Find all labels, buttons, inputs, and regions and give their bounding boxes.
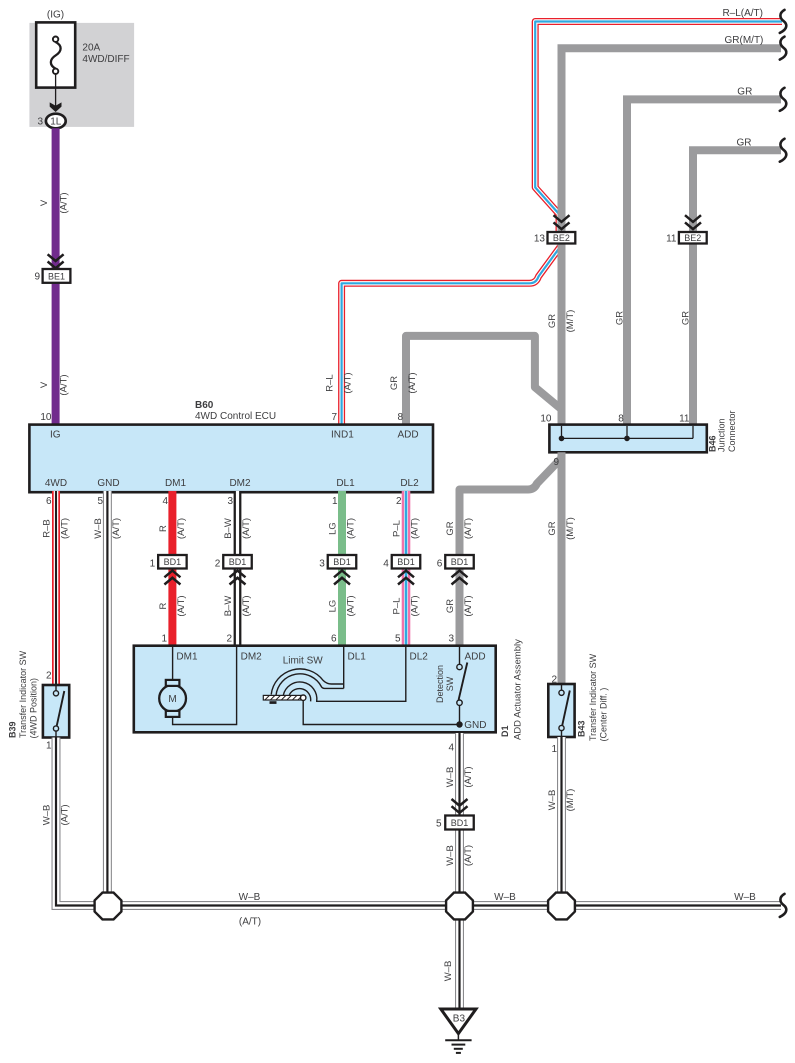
svg-text:DL1: DL1 <box>336 478 355 489</box>
wire W-B from ECU pin 5 to ground bus <box>103 491 112 906</box>
connector BD1 pin 3 <box>319 555 356 570</box>
junction node octagon right <box>548 893 575 920</box>
svg-text:20A: 20A <box>82 43 100 54</box>
chevron arrow into BE1 <box>48 254 64 268</box>
chevron arrow BD1 pin 2 <box>230 571 246 585</box>
svg-text:(A/T): (A/T) <box>463 518 474 539</box>
svg-text:V: V <box>39 199 50 206</box>
svg-text:11: 11 <box>679 414 690 425</box>
wire P-L from ECU pin 2 to actuator DL2 <box>402 491 411 646</box>
switch B39 Transfer Indicator SW (4WD Position) <box>43 685 69 738</box>
svg-text:4: 4 <box>162 496 168 507</box>
svg-text:(A/T): (A/T) <box>345 595 356 616</box>
svg-text:P–L: P–L <box>391 598 402 615</box>
wire GR(A/T) branch from pin 9 to BD1 pin 6 and actuator ADD <box>460 458 562 646</box>
label W-B (M/T) at B43 wire <box>547 789 576 812</box>
svg-text:6: 6 <box>46 496 52 507</box>
label B46 Junction Connector <box>708 410 738 452</box>
wire W-B(M/T) from B43 pin 1 to ground bus <box>557 737 566 906</box>
chevron arrow into BD1 pin 5 <box>452 799 468 813</box>
limit switch wiper (hatched bar) <box>263 695 459 725</box>
svg-text:B–W: B–W <box>223 596 234 617</box>
svg-text:Junction: Junction <box>717 418 727 452</box>
svg-text:Transfer Indicator SW: Transfer Indicator SW <box>588 653 598 741</box>
svg-text:(A/T): (A/T) <box>345 518 356 539</box>
connector BD1 pin 6 <box>437 555 474 570</box>
fuse 20A 4WD/DIFF <box>36 22 75 87</box>
actuator internal pin labels <box>176 652 485 667</box>
svg-text:1: 1 <box>150 559 156 570</box>
break symbol GR wire upper <box>780 88 787 111</box>
svg-text:B43: B43 <box>577 720 587 737</box>
svg-text:ADD: ADD <box>465 652 486 663</box>
wire B-W from ECU pin 3 to actuator DM2 <box>234 491 242 646</box>
svg-text:3: 3 <box>37 117 43 128</box>
svg-text:4WD Control ECU: 4WD Control ECU <box>195 411 276 422</box>
svg-text:IND1: IND1 <box>331 430 354 441</box>
label W-B (A/T) above BD1 pin5 <box>445 766 474 787</box>
label R (A/T) upper <box>158 518 187 539</box>
B39 pin numbers <box>46 671 52 752</box>
ECU pin numbers bottom <box>46 496 402 507</box>
svg-text:5: 5 <box>395 634 401 645</box>
chevron arrow BD1 pin 3 <box>334 571 350 585</box>
svg-text:W–B: W–B <box>547 790 558 811</box>
label W-B right bus segment <box>734 892 756 903</box>
svg-text:(A/T): (A/T) <box>59 518 70 539</box>
svg-text:DM1: DM1 <box>165 478 187 489</box>
ECU pin labels bottom row <box>45 478 419 489</box>
svg-text:(A/T): (A/T) <box>59 374 70 395</box>
svg-text:(A/T): (A/T) <box>59 804 70 825</box>
svg-text:W–B: W–B <box>239 892 261 903</box>
arrow to connector 1L <box>50 102 62 112</box>
svg-text:1: 1 <box>161 634 167 645</box>
label GR <box>737 86 752 97</box>
svg-text:BD1: BD1 <box>333 557 351 567</box>
svg-text:4WD: 4WD <box>45 478 67 489</box>
svg-text:GR: GR <box>615 311 626 325</box>
svg-text:GR: GR <box>445 521 456 535</box>
svg-text:GR: GR <box>445 599 456 613</box>
svg-text:ADD: ADD <box>398 430 419 441</box>
connector BD1 pin 2 <box>215 555 252 570</box>
svg-text:(A/T): (A/T) <box>241 518 252 539</box>
label R-L(A/T) <box>722 8 763 19</box>
fuse panel (junction block shading) <box>29 23 134 127</box>
limit switch arcs <box>271 647 406 702</box>
svg-text:2: 2 <box>551 675 557 686</box>
svg-text:6: 6 <box>331 634 337 645</box>
connector BD1 pin 4 <box>383 555 420 570</box>
svg-text:DL1: DL1 <box>348 652 367 663</box>
B43 pin numbers <box>551 675 557 756</box>
svg-text:W–B: W–B <box>93 518 104 539</box>
svg-text:(A/T): (A/T) <box>59 192 70 213</box>
junction node octagon left <box>95 893 122 920</box>
break symbol GR(M/T) wire <box>780 37 787 60</box>
wire W-B from bus down to ground B3 <box>455 906 464 1010</box>
label B-W (A/T) lower <box>223 595 252 616</box>
break symbol bus right end <box>780 894 787 917</box>
label GR <box>737 137 752 148</box>
svg-text:GR: GR <box>547 521 558 535</box>
label 20A 4WD/DIFF <box>82 43 129 65</box>
svg-text:7: 7 <box>331 412 337 423</box>
svg-text:(A/T): (A/T) <box>176 595 187 616</box>
wire W-B from actuator GND pin 4 down to bus <box>455 733 464 906</box>
wire GR to B46 pin 8 <box>627 99 781 425</box>
svg-text:(4WD Position): (4WD Position) <box>29 678 39 739</box>
svg-text:GR: GR <box>681 311 692 325</box>
wire LG from ECU pin 1 to actuator DL1 <box>338 491 346 646</box>
svg-text:11: 11 <box>666 233 677 244</box>
svg-text:R–B: R–B <box>41 519 52 537</box>
svg-text:9: 9 <box>553 457 559 468</box>
label W-B (A/T) at B39 wire <box>41 804 70 825</box>
label GND inside actuator <box>464 720 486 731</box>
svg-text:DM1: DM1 <box>176 652 198 663</box>
break symbol GR wire lower <box>780 139 787 162</box>
label B39 Transfer Indicator SW (4WD Position) <box>8 650 39 738</box>
svg-text:1: 1 <box>551 744 557 755</box>
svg-text:Limit SW: Limit SW <box>283 656 324 667</box>
svg-text:DL2: DL2 <box>410 652 429 663</box>
svg-text:V: V <box>39 381 50 388</box>
svg-text:(Center Diff. ): (Center Diff. ) <box>599 688 609 742</box>
svg-text:5: 5 <box>436 819 442 830</box>
svg-text:(A/T): (A/T) <box>176 518 187 539</box>
wire fuse output <box>55 74 57 110</box>
label W-B (A/T) below BD1 pin5 <box>445 845 474 866</box>
svg-text:SW: SW <box>445 676 455 691</box>
svg-text:LG: LG <box>327 522 338 535</box>
label B-W (A/T) upper <box>223 518 252 539</box>
svg-text:2: 2 <box>226 634 232 645</box>
svg-text:(A/T): (A/T) <box>409 595 420 616</box>
svg-text:4WD/DIFF: 4WD/DIFF <box>82 54 129 65</box>
svg-text:1L: 1L <box>50 117 62 128</box>
label W-B middle bus segment <box>494 892 516 903</box>
connector 1L pin 3 <box>37 114 65 129</box>
svg-text:13: 13 <box>534 233 546 244</box>
svg-text:DM2: DM2 <box>241 652 263 663</box>
svg-text:Detection: Detection <box>435 665 445 703</box>
label D1 ADD Actuator Assembly <box>500 639 524 740</box>
svg-text:IG: IG <box>50 430 61 441</box>
svg-text:10: 10 <box>540 414 552 425</box>
svg-text:8: 8 <box>397 412 403 423</box>
wire W-B from B39 pin 1 to ground bus <box>56 738 108 906</box>
label R-L (A/T) vertical at ECU pin 7 <box>325 372 354 393</box>
svg-text:W–B: W–B <box>445 845 456 866</box>
svg-text:W–B: W–B <box>734 892 756 903</box>
label (A/T) left bus segment <box>239 917 261 928</box>
svg-text:(A/T): (A/T) <box>343 372 354 393</box>
svg-text:(A/T): (A/T) <box>409 518 420 539</box>
svg-text:2: 2 <box>46 671 52 682</box>
wire R-L lower segment to ECU pin 7 <box>342 244 562 426</box>
svg-text:2: 2 <box>396 496 402 507</box>
label W-B at ground wire <box>443 961 454 982</box>
svg-text:R–L(A/T): R–L(A/T) <box>722 8 763 19</box>
wire R-B from ECU pin 6 to B39 pin 2 <box>52 491 60 686</box>
actuator pin 4 number <box>448 743 454 754</box>
svg-text:10: 10 <box>40 412 52 423</box>
wire R from ECU pin 4 to actuator DM1 <box>168 491 176 646</box>
svg-text:GND: GND <box>97 478 119 489</box>
svg-text:P–L: P–L <box>391 520 402 537</box>
ground connector B3 triangle <box>441 1009 476 1034</box>
label GR (M/T) vertical above B43 <box>547 517 576 540</box>
connector BD1 pin 5 <box>436 816 474 830</box>
label W-B left bus segment <box>239 892 261 903</box>
connector BE2 pin 11 <box>666 232 707 244</box>
svg-text:GR: GR <box>389 376 400 390</box>
actuator pin numbers above box <box>161 634 454 645</box>
ECU pin numbers top <box>40 412 403 423</box>
svg-text:BD1: BD1 <box>164 557 182 567</box>
svg-text:DM2: DM2 <box>229 478 251 489</box>
svg-text:M: M <box>168 694 176 705</box>
svg-text:W–B: W–B <box>41 805 52 826</box>
svg-text:BE2: BE2 <box>553 233 570 243</box>
svg-text:LG: LG <box>327 600 338 613</box>
svg-text:W–B: W–B <box>494 892 516 903</box>
wire R-L(A/T) from IND1 to top right <box>535 22 782 233</box>
label R (A/T) lower <box>158 595 187 616</box>
svg-text:B–W: B–W <box>223 518 234 539</box>
svg-text:Connector: Connector <box>727 410 737 452</box>
chevron arrow BD1 pin 6 <box>452 571 468 585</box>
svg-text:BD1: BD1 <box>229 557 247 567</box>
svg-text:B3: B3 <box>453 1014 466 1025</box>
svg-text:3: 3 <box>227 496 233 507</box>
label P-L (A/T) upper <box>391 518 420 539</box>
svg-text:BE2: BE2 <box>684 233 701 243</box>
svg-text:R: R <box>158 602 169 609</box>
svg-text:2: 2 <box>215 559 221 570</box>
svg-text:(IG): (IG) <box>47 10 64 21</box>
label B60 4WD Control ECU <box>195 400 276 422</box>
svg-text:(A/T): (A/T) <box>241 595 252 616</box>
svg-text:3: 3 <box>448 634 454 645</box>
label GR (A/T) lower at BD1 pin6 <box>445 595 474 616</box>
B46 pin numbers <box>540 414 690 469</box>
break symbol R-L wire <box>780 10 787 33</box>
svg-text:B60: B60 <box>195 400 214 411</box>
ECU pin labels top row <box>50 430 419 441</box>
connector BE1 pin 9 <box>34 269 70 283</box>
chevron arrow BD1 pin 1 <box>164 571 180 585</box>
svg-text:BD1: BD1 <box>397 557 415 567</box>
svg-text:4: 4 <box>383 559 389 570</box>
svg-text:(M/T): (M/T) <box>565 310 576 333</box>
svg-text:GND: GND <box>464 720 486 731</box>
label P-L (A/T) lower <box>391 595 420 616</box>
svg-text:R–L: R–L <box>325 374 336 391</box>
svg-text:(M/T): (M/T) <box>565 789 576 812</box>
svg-text:BD1: BD1 <box>451 818 469 828</box>
svg-text:(A/T): (A/T) <box>463 766 474 787</box>
label LG (A/T) upper <box>327 518 356 539</box>
svg-text:R: R <box>158 525 169 532</box>
svg-text:1: 1 <box>332 496 338 507</box>
ground symbol <box>445 1032 471 1053</box>
ground bus W-B horizontal <box>108 901 781 910</box>
svg-text:BE1: BE1 <box>48 271 65 281</box>
svg-text:W–B: W–B <box>443 961 454 982</box>
svg-text:(A/T): (A/T) <box>463 595 474 616</box>
svg-text:GR: GR <box>547 314 558 328</box>
svg-text:Transfer Indicator SW: Transfer Indicator SW <box>18 650 28 738</box>
wire V from fuse 1L to ECU pin 10 <box>52 128 60 425</box>
svg-text:(A/T): (A/T) <box>111 518 122 539</box>
svg-text:D1: D1 <box>500 725 510 737</box>
motor M <box>159 647 236 725</box>
svg-text:1: 1 <box>46 741 52 752</box>
wire GR(M/T) from top right to B46 pin 10 <box>562 48 782 425</box>
label GR (A/T) vertical above BD1 pin6 <box>445 518 474 539</box>
svg-text:GR(M/T): GR(M/T) <box>725 35 764 46</box>
chevron arrow into BE2 pin 13 <box>554 215 570 229</box>
junction connector B46 <box>549 425 706 453</box>
svg-text:5: 5 <box>97 496 103 507</box>
chevron arrow BD1 pin 4 <box>398 571 414 585</box>
svg-text:BD1: BD1 <box>451 557 469 567</box>
label B43 Transfer Indicator SW (Center Diff.) <box>577 653 609 741</box>
wire GR(M/T) from B46 pin 9 to B43 pin 2 <box>558 452 566 685</box>
svg-text:9: 9 <box>34 272 40 283</box>
label (IG) <box>47 10 64 21</box>
svg-text:(A/T): (A/T) <box>407 372 418 393</box>
svg-text:GR: GR <box>737 86 752 97</box>
op ECU B60 4WD Control ECU <box>29 425 433 493</box>
svg-text:(A/T): (A/T) <box>463 845 474 866</box>
label V (A/T) upper <box>39 192 70 213</box>
label GR vertical at x693 <box>681 311 692 325</box>
detection switch <box>456 647 467 728</box>
label GR (M/T) vertical upper <box>547 310 576 333</box>
chevron arrow into BE2 pin 11 <box>685 215 701 229</box>
switch B43 Transfer Indicator SW (Center Diff.) <box>548 684 574 737</box>
wire GR(A/T) from ECU pin 8 up to junction with GR(M/T) <box>406 336 562 426</box>
junction node octagon center <box>446 893 473 920</box>
connector BE2 pin 13 <box>534 232 575 244</box>
connector BD1 pin 1 <box>150 555 187 570</box>
label LG (A/T) lower <box>327 595 356 616</box>
svg-text:W–B: W–B <box>445 767 456 788</box>
svg-text:6: 6 <box>437 559 443 570</box>
label V (A/T) lower <box>39 374 70 395</box>
svg-text:GR: GR <box>737 137 752 148</box>
svg-text:3: 3 <box>319 559 325 570</box>
svg-text:(M/T): (M/T) <box>565 517 576 540</box>
svg-text:DL2: DL2 <box>400 478 419 489</box>
svg-text:ADD Actuator Assembly: ADD Actuator Assembly <box>513 639 524 740</box>
svg-text:8: 8 <box>618 414 624 425</box>
svg-text:B39: B39 <box>8 721 18 738</box>
label R-B (A/T) <box>41 518 70 539</box>
label GR(M/T) <box>725 35 764 46</box>
svg-text:(A/T): (A/T) <box>239 917 261 928</box>
actuator assembly D1 box <box>134 646 496 733</box>
label Detection SW <box>435 665 455 703</box>
label GR (A/T) vertical at ECU pin 8 <box>389 372 418 393</box>
label GR vertical at x627 <box>615 311 626 325</box>
svg-text:4: 4 <box>448 743 454 754</box>
label W-B (A/T) <box>93 518 122 539</box>
wire GR to BE2 pin 11 / B46 pin 11 <box>693 150 781 425</box>
